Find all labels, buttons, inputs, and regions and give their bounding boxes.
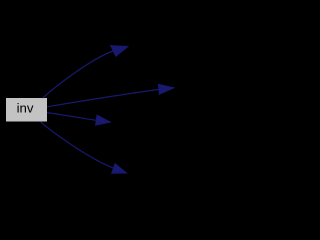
wire edge C: [47, 113, 96, 121]
svg-text:inv: inv: [17, 101, 34, 116]
wire edge D: [41, 122, 113, 168]
wire edge B: [47, 89, 159, 106]
arrowhead C: [96, 115, 111, 125]
arrowhead B: [158, 84, 173, 94]
node inv: [6, 98, 47, 122]
arrowhead A: [111, 46, 128, 57]
arrowhead D: [112, 164, 127, 174]
wire edge A: [43, 51, 114, 98]
